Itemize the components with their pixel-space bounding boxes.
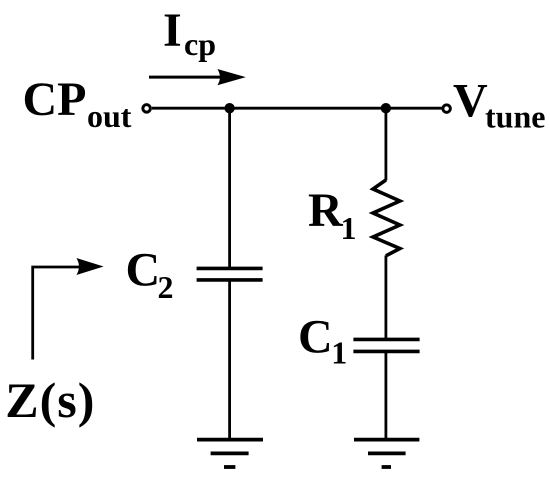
label R_1 <box>308 184 357 246</box>
wire: node A down to C2 <box>228 108 231 268</box>
svg-text:1: 1 <box>341 210 357 246</box>
capacitor C2 <box>197 268 263 280</box>
node A (junction dot, left) <box>224 103 234 113</box>
svg-text:tune: tune <box>485 99 545 135</box>
svg-text:1: 1 <box>331 334 347 370</box>
svg-text:out: out <box>87 98 132 134</box>
svg-text:cp: cp <box>184 26 216 62</box>
pointer arrow from Z(s) to network <box>33 258 104 360</box>
wire: top horizontal CPout to Vtune <box>152 107 442 110</box>
label I_cp <box>163 4 216 62</box>
capacitor C1 <box>353 339 419 351</box>
ground (left) <box>197 440 263 467</box>
svg-text:C: C <box>298 310 333 363</box>
svg-text:2: 2 <box>158 269 174 305</box>
svg-text:Z(s): Z(s) <box>5 372 95 428</box>
wire: C2 down to ground <box>228 280 231 440</box>
current arrow Icp <box>149 69 246 85</box>
ground (right) <box>354 440 419 467</box>
wire: node B down to R1 <box>384 108 387 180</box>
label C_1 <box>298 310 347 370</box>
svg-text:C: C <box>126 244 161 297</box>
wire: R1 down to C1 <box>384 256 387 340</box>
wire: C1 down to ground <box>384 351 387 439</box>
label V_tune <box>453 74 545 134</box>
label C_2 <box>126 244 174 306</box>
svg-text:R: R <box>308 184 344 237</box>
svg-text:CP: CP <box>23 73 87 126</box>
svg-text:V: V <box>453 74 488 127</box>
svg-text:I: I <box>163 4 182 57</box>
terminal CP_out (open circle) <box>143 105 151 113</box>
terminal V_tune (open circle) <box>443 105 451 113</box>
label CP_out <box>23 73 132 134</box>
node B (junction dot, right) <box>381 103 391 113</box>
resistor R1 <box>373 180 400 256</box>
